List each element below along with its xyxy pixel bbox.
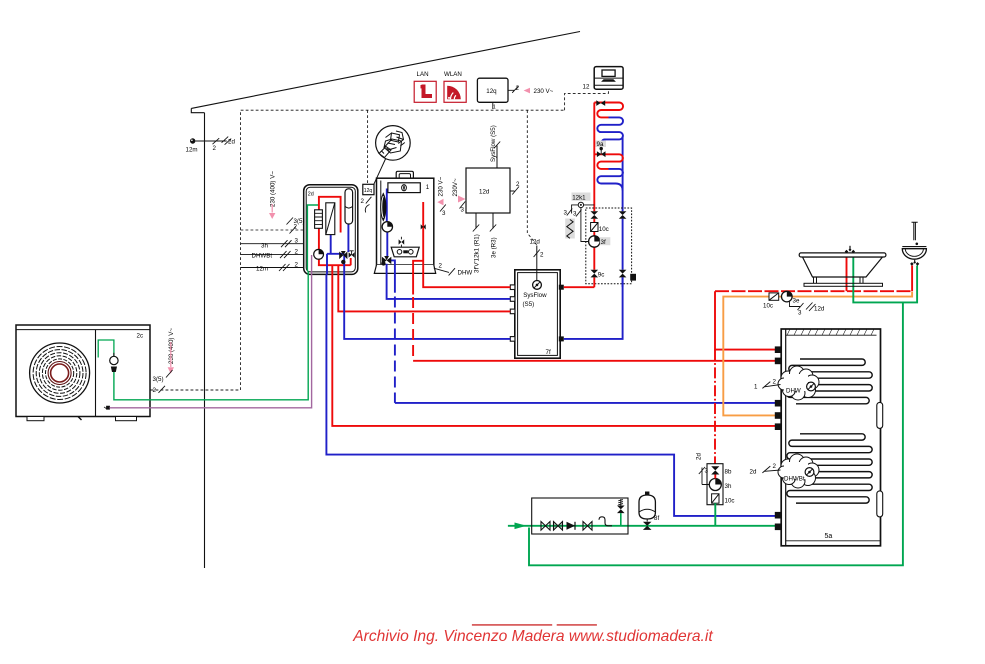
- svg-text:2: 2: [294, 224, 298, 231]
- boiler gas valve: [399, 237, 405, 247]
- svg-text:Archivio Ing. Vincenzo Madera: Archivio Ing. Vincenzo Madera www.studio…: [352, 628, 713, 645]
- SysFlow (S5) sensor lead: [490, 125, 500, 168]
- LAN icon: [414, 71, 436, 102]
- control line 12m: [241, 262, 304, 273]
- sensor 12d on SysFlow: [530, 239, 545, 290]
- svg-text:12d: 12d: [530, 239, 541, 246]
- svg-text:12d: 12d: [814, 306, 825, 313]
- blue drop inside mixing box: [622, 219, 624, 287]
- svg-text:12k1: 12k1: [572, 195, 586, 202]
- cold water main: [508, 525, 777, 527]
- radiator return pipe: [622, 137, 624, 212]
- underfloor serpentine upper red: [594, 103, 623, 118]
- svg-text:3: 3: [564, 210, 568, 217]
- svg-text:3(5): 3(5): [153, 376, 164, 383]
- flow sensor 12k1: [564, 193, 595, 242]
- svg-text:2: 2: [361, 198, 365, 205]
- valve bottom-left 9c: [591, 270, 599, 278]
- boiler 1 body: [374, 171, 435, 273]
- svg-text:12q: 12q: [364, 188, 373, 194]
- purple connector: [104, 406, 110, 409]
- svg-text:7f: 7f: [546, 349, 551, 356]
- tank flanges: [877, 402, 883, 428]
- svg-text:2: 2: [153, 387, 157, 394]
- burner box: [388, 183, 420, 193]
- outdoor 230(400)V supply: [153, 328, 175, 394]
- svg-text:1: 1: [426, 184, 430, 191]
- control bus dashed boundary: [151, 110, 565, 390]
- indoor unit blue piping: [327, 224, 348, 274]
- blue SysFlow to mixing group: [564, 277, 623, 339]
- relay lead 3f'V'12k1 (R1): [473, 213, 481, 273]
- thermostat 12: [583, 67, 624, 91]
- boiler diverter valve: [381, 256, 391, 266]
- svg-text:2d: 2d: [750, 469, 757, 476]
- svg-text:3: 3: [461, 207, 465, 214]
- DHW circulation group 8b 3h 10c: [696, 453, 735, 526]
- svg-text:10c: 10c: [599, 226, 609, 233]
- bath mixer tap: [849, 246, 851, 251]
- SysFlow left ports: [510, 285, 515, 341]
- water inlet group box: [532, 498, 628, 534]
- tank ports: [775, 346, 782, 530]
- indoor unit green wire: [307, 205, 319, 271]
- svg-text:SysFlow: SysFlow: [523, 292, 547, 299]
- svg-text:2d: 2d: [228, 139, 235, 146]
- footer rule: [472, 624, 597, 626]
- indoor small valve: [349, 251, 355, 258]
- svg-text:3f: 3f: [601, 239, 606, 246]
- svg-text:3: 3: [295, 238, 299, 245]
- DHW circulation riser (dash-dot): [714, 350, 716, 464]
- svg-text:DHWBt: DHWBt: [784, 476, 805, 483]
- svg-text:12d: 12d: [479, 189, 490, 196]
- svg-text:SysFlow (S5): SysFlow (S5): [490, 125, 497, 162]
- boiler 230V supply: [437, 176, 446, 217]
- svg-text:2: 2: [516, 181, 520, 188]
- svg-text:5a: 5a: [825, 533, 833, 540]
- underfloor serpentine upper blue: [597, 117, 623, 141]
- svg-text:3h: 3h: [725, 483, 732, 490]
- blue DHW loading pipe (dashed): [394, 262, 396, 293]
- plate heat exchanger: [326, 203, 335, 235]
- boiler interior blue pipe: [387, 189, 395, 277]
- DHW tank 5a: [781, 329, 880, 546]
- blue pipe indoor to SysFlow: [344, 274, 510, 339]
- indoor unit red piping: [318, 197, 351, 275]
- svg-text:3f'V'12k1 (R1): 3f'V'12k1 (R1): [473, 234, 480, 273]
- 12d box 230V supply: [452, 178, 465, 213]
- DHW hot distribution: [715, 291, 777, 349]
- svg-text:3: 3: [705, 468, 709, 475]
- svg-text:DHW: DHW: [786, 388, 801, 395]
- flue fan: [381, 194, 386, 221]
- green refrigerant/cable outdoor-indoor: [114, 271, 308, 400]
- cold supply riser: [529, 302, 903, 565]
- outdoor service valves: [98, 340, 118, 372]
- DHW outlet label: [434, 263, 473, 277]
- dashed drop to sensor 12d: [527, 110, 537, 245]
- svg-text:DHWBt: DHWBt: [252, 253, 273, 260]
- svg-text:1: 1: [493, 105, 496, 111]
- indoor 230(400)V supply: [269, 171, 305, 234]
- svg-text:2: 2: [295, 249, 299, 256]
- feet: [27, 417, 44, 421]
- svg-text:8f: 8f: [654, 515, 659, 522]
- check valve: [554, 522, 563, 531]
- outdoor sensor 12m: [186, 137, 236, 154]
- underfloor serpentine lower blue: [597, 169, 623, 191]
- svg-text:2: 2: [540, 252, 544, 259]
- mixing group box (dotted): [586, 208, 632, 284]
- svg-text:230 (400) V~: 230 (400) V~: [269, 171, 276, 207]
- red pipe indoor to SysFlow: [338, 274, 510, 311]
- svg-text:(S5): (S5): [523, 301, 535, 308]
- blue pipe boiler to SysFlow: [387, 276, 511, 299]
- dashed drop to boiler sensor 12q: [367, 110, 369, 184]
- filter 10c: [591, 223, 609, 234]
- safety valve: [617, 499, 625, 526]
- blue pipe indoor to tank bottom: [326, 274, 776, 516]
- svg-text:2: 2: [773, 379, 777, 386]
- controller 12d box: [466, 168, 510, 213]
- washbasin: [902, 222, 926, 265]
- svg-text:230V~: 230V~: [452, 178, 459, 196]
- red drop inside mixing box: [593, 219, 595, 287]
- indoor hydro unit 2d: [304, 185, 358, 275]
- svg-text:10c: 10c: [725, 498, 735, 505]
- DHWBt sensor cloud: [778, 454, 819, 488]
- svg-text:1: 1: [754, 384, 758, 391]
- radiator supply riser: [593, 103, 595, 212]
- svg-text:12m: 12m: [256, 266, 268, 273]
- red SysFlow to mixing group: [564, 286, 595, 288]
- indoor diverter valve: [339, 251, 347, 264]
- 12d box right lead: [510, 181, 520, 195]
- SysFlow module 7f: [515, 270, 560, 358]
- svg-text:8b: 8b: [725, 469, 732, 476]
- svg-text:3: 3: [573, 211, 577, 218]
- svg-text:3e: 3e: [793, 298, 800, 305]
- red pipe boiler to SysFlow: [423, 265, 510, 287]
- svg-text:3: 3: [442, 210, 446, 217]
- svg-text:3e (R3): 3e (R3): [490, 237, 497, 258]
- wall: [204, 113, 206, 568]
- pump 3f: [589, 236, 611, 247]
- boiler flue sensor 12q: [361, 184, 375, 212]
- svg-text:LAN: LAN: [417, 71, 429, 78]
- svg-text:DHW: DHW: [458, 270, 473, 277]
- shutoff valve: [541, 522, 550, 531]
- svg-text:2: 2: [516, 85, 520, 92]
- valve bottom-right: [619, 270, 627, 278]
- red pipe indoor to tank: [332, 274, 776, 426]
- circulation filter 10c: [763, 293, 779, 310]
- boiler interior red pipe: [413, 202, 423, 265]
- dashed link thermostat: [565, 89, 609, 110]
- svg-text:2: 2: [295, 262, 299, 269]
- electric heater: [315, 210, 323, 229]
- upper coil: [787, 359, 872, 404]
- svg-text:2d: 2d: [308, 192, 314, 198]
- backflow preventer: [567, 522, 576, 530]
- dashed branch to indoor unit: [241, 229, 304, 231]
- expansion vessel: [345, 189, 353, 224]
- outdoor heat pump 2c: [16, 325, 150, 421]
- svg-text:2: 2: [439, 263, 443, 270]
- basin mixer tap: [914, 260, 916, 263]
- valve at serpentine inlet: [596, 100, 605, 106]
- svg-text:10c: 10c: [763, 303, 773, 310]
- DHW sensor cloud: [778, 366, 819, 400]
- circulation return orange: [792, 292, 912, 297]
- relay lead 3e (R3): [490, 213, 498, 258]
- SysFlow right ports: [559, 285, 564, 342]
- lower coil: [787, 434, 872, 503]
- indoor pump: [314, 249, 324, 259]
- black port square: [630, 274, 636, 281]
- hot to basin: [911, 266, 913, 292]
- svg-text:230 V~: 230 V~: [437, 176, 444, 196]
- circulation pump 3e: [782, 291, 825, 316]
- bathtub: [799, 246, 886, 286]
- fan grille: [30, 343, 90, 403]
- flue detail magnifier: [374, 126, 410, 185]
- boiler control panel: [391, 247, 419, 257]
- outdoor control cable (dashed): [151, 389, 241, 391]
- svg-text:12m: 12m: [186, 147, 198, 154]
- gateway box 12q: [477, 78, 553, 110]
- cold water to bath and basin green: [853, 253, 917, 302]
- svg-text:2: 2: [773, 463, 777, 470]
- svg-text:12: 12: [583, 84, 590, 91]
- roof line: [191, 32, 580, 109]
- svg-text:230 V~: 230 V~: [534, 88, 554, 95]
- svg-text:2: 2: [213, 145, 217, 152]
- valve on boiler red pipe: [421, 224, 426, 229]
- svg-text:WLAN: WLAN: [444, 71, 462, 78]
- valve top-left: [591, 211, 599, 219]
- purple cable outdoor-indoor: [110, 255, 312, 408]
- red DHW loading pipe (dashed): [412, 265, 414, 295]
- valve top-right: [619, 211, 627, 219]
- svg-text:2d: 2d: [696, 453, 703, 460]
- expansion vessel 8f: [639, 492, 659, 530]
- eave: [191, 108, 204, 112]
- svg-text:3: 3: [798, 310, 802, 317]
- WLAN icon: [444, 71, 466, 102]
- boiler pump: [382, 222, 392, 232]
- svg-text:12q: 12q: [486, 88, 497, 95]
- 230V mains arrow: [524, 88, 530, 94]
- svg-text:9c: 9c: [598, 272, 605, 279]
- svg-text:2c: 2c: [137, 333, 144, 340]
- hot drop to bath: [846, 253, 848, 291]
- pressure reducer: [599, 517, 612, 526]
- control line DHWBt: [241, 249, 304, 260]
- svg-text:9a: 9a: [597, 141, 604, 148]
- underfloor serpentine lower red: [594, 154, 623, 169]
- zone valve 9a: [596, 141, 607, 158]
- svg-text:3h: 3h: [261, 243, 268, 250]
- supply arrow: [515, 523, 527, 530]
- shutoff valve 2: [583, 522, 592, 531]
- control line 3h: [241, 238, 304, 250]
